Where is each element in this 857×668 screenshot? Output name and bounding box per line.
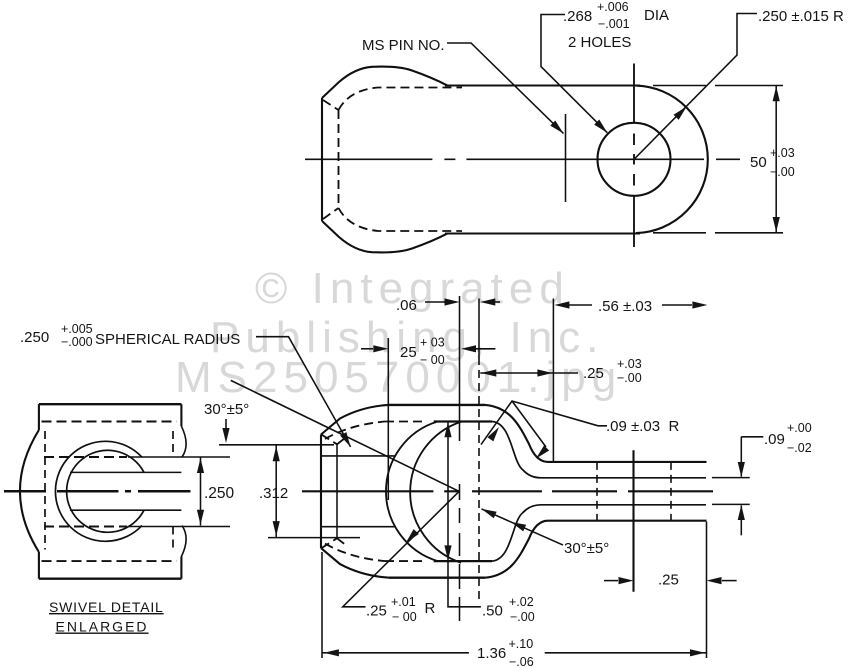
svg-text:2 HOLES: 2 HOLES bbox=[568, 34, 631, 51]
svg-text:−.00: −.00 bbox=[617, 371, 642, 385]
svg-text:1.36: 1.36 bbox=[477, 645, 506, 662]
svg-text:−.00: −.00 bbox=[770, 165, 795, 179]
svg-text:−.02: −.02 bbox=[787, 441, 812, 455]
svg-text:.25: .25 bbox=[583, 365, 604, 382]
svg-text:.06: .06 bbox=[396, 297, 417, 314]
svg-text:.25: .25 bbox=[658, 572, 679, 589]
svg-text:ENLARGED: ENLARGED bbox=[56, 619, 149, 635]
svg-text:50: 50 bbox=[750, 154, 767, 171]
svg-text:SWIVEL DETAIL: SWIVEL DETAIL bbox=[49, 599, 164, 615]
svg-text:30°±5°: 30°±5° bbox=[204, 401, 249, 418]
svg-text:+ 03: + 03 bbox=[420, 336, 445, 350]
svg-text:.312: .312 bbox=[259, 485, 288, 502]
svg-text:+.006: +.006 bbox=[597, 0, 629, 14]
svg-text:.56 ±.03: .56 ±.03 bbox=[598, 298, 652, 315]
svg-text:.09: .09 bbox=[764, 431, 785, 448]
svg-text:.268: .268 bbox=[563, 8, 592, 25]
svg-text:+.03: +.03 bbox=[770, 146, 795, 160]
svg-text:SPHERICAL RADIUS: SPHERICAL RADIUS bbox=[95, 331, 240, 348]
svg-text:.09 ±.03 R: .09 ±.03 R bbox=[606, 418, 679, 435]
svg-text:.250 ±.015 R: .250 ±.015 R bbox=[758, 8, 844, 25]
svg-text:30°±5°: 30°±5° bbox=[564, 540, 609, 557]
svg-text:DIA: DIA bbox=[644, 7, 669, 24]
svg-text:.50: .50 bbox=[482, 603, 503, 620]
svg-text:MS250570001.jpg: MS250570001.jpg bbox=[175, 353, 622, 402]
svg-text:− 00: − 00 bbox=[392, 610, 417, 624]
svg-text:.25: .25 bbox=[366, 603, 387, 620]
svg-text:−.06: −.06 bbox=[509, 655, 534, 668]
svg-text:+.01: +.01 bbox=[391, 595, 416, 609]
svg-text:+.03: +.03 bbox=[617, 357, 642, 371]
svg-text:+.02: +.02 bbox=[509, 595, 534, 609]
svg-text:+.10: +.10 bbox=[509, 637, 534, 651]
svg-text:MS PIN NO.: MS PIN NO. bbox=[362, 37, 445, 54]
svg-text:−.001: −.001 bbox=[598, 17, 630, 31]
svg-text:.250: .250 bbox=[204, 485, 235, 502]
svg-text:.250: .250 bbox=[20, 329, 49, 346]
svg-text:− 00: − 00 bbox=[420, 353, 445, 367]
svg-text:R: R bbox=[425, 600, 436, 617]
svg-text:−.00: −.00 bbox=[510, 610, 535, 624]
svg-text:−.000: −.000 bbox=[61, 335, 93, 349]
svg-text:+.00: +.00 bbox=[787, 421, 812, 435]
svg-text:25: 25 bbox=[400, 344, 417, 361]
svg-text:+.005: +.005 bbox=[61, 322, 93, 336]
